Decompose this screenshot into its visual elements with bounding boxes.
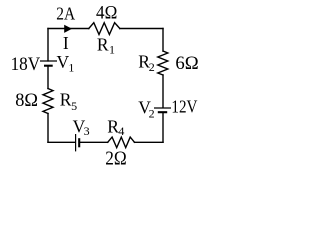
wire left side lower xyxy=(47,114,49,143)
svg-text:R: R xyxy=(97,35,109,55)
svg-text:4Ω: 4Ω xyxy=(96,4,117,24)
svg-text:2A: 2A xyxy=(56,4,75,24)
svg-text:R: R xyxy=(60,90,72,110)
wire bottom-left segment xyxy=(48,141,75,143)
label R5 xyxy=(60,90,77,114)
label R4 xyxy=(107,116,124,138)
svg-text:2: 2 xyxy=(149,107,155,121)
wire right side lower xyxy=(162,113,164,142)
label V2 xyxy=(138,97,154,120)
svg-text:2Ω: 2Ω xyxy=(105,148,127,170)
label V1 xyxy=(57,52,75,74)
svg-text:5: 5 xyxy=(71,99,77,113)
wire bottom middle segment xyxy=(81,141,108,143)
resistor R1 xyxy=(89,23,120,35)
wire left side middle xyxy=(47,67,49,89)
wire right side middle xyxy=(162,75,164,108)
wire top-left horizontal segment xyxy=(48,28,89,30)
resistor R4 xyxy=(108,137,135,148)
svg-text:1: 1 xyxy=(109,43,115,57)
resistor R5 xyxy=(43,89,53,114)
resistor R2 xyxy=(158,51,168,75)
svg-text:18V: 18V xyxy=(11,55,41,75)
battery V1 xyxy=(40,61,57,66)
battery V3 xyxy=(76,134,80,151)
label R1 xyxy=(97,35,115,57)
svg-text:I: I xyxy=(63,33,69,53)
wire top-right horizontal segment xyxy=(120,28,163,30)
svg-text:12V: 12V xyxy=(171,97,197,117)
svg-text:R: R xyxy=(107,116,119,136)
label V3 xyxy=(73,116,90,138)
label R2 xyxy=(138,51,155,74)
svg-text:1: 1 xyxy=(68,61,74,75)
battery V2 xyxy=(154,108,171,112)
wire bottom-right segment xyxy=(135,141,164,143)
svg-text:2: 2 xyxy=(149,60,155,74)
svg-text:4: 4 xyxy=(118,124,124,138)
svg-text:3: 3 xyxy=(84,124,90,138)
svg-text:6Ω: 6Ω xyxy=(175,54,198,74)
wire left side upper xyxy=(47,29,49,61)
current arrow xyxy=(64,25,72,33)
svg-text:8Ω: 8Ω xyxy=(15,91,38,111)
wire right side upper xyxy=(162,29,164,52)
